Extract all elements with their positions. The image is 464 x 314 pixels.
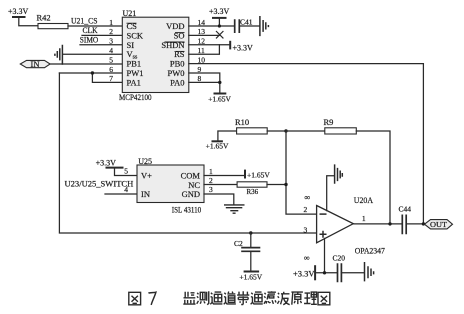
wire U21 pin 13 (SO) no-connect [189, 34, 220, 36]
wire U21 pin 11 (RS) jog up to pin 12 net [189, 45, 220, 54]
wire IN to U21 pin 5 [50, 63, 122, 65]
power +1.65V (C2) [239, 272, 262, 282]
resistor R9 [324, 117, 357, 134]
wire: long net from PW1/PA1 down left side to op-amp + input [59, 73, 316, 233]
junction (C2 / op-amp + net) [249, 231, 252, 234]
svg-text:2: 2 [209, 176, 213, 185]
capacitor C44 [399, 205, 412, 235]
power +3.3V (pin 12, rotated right) [230, 41, 253, 53]
svg-text:3: 3 [304, 225, 308, 234]
connector OUT [425, 220, 453, 229]
svg-text:+3.3V: +3.3V [8, 7, 29, 16]
svg-text:1: 1 [209, 167, 213, 176]
power +3.3V (op-amp supply rail) [293, 265, 337, 280]
capacitor C2 [234, 233, 260, 271]
wire U25 pin 2 (NC) to R36 [204, 184, 237, 186]
power +1.65V (COM, rotated right) [245, 170, 270, 180]
junction (output / R9 feedback) [388, 222, 391, 225]
svg-text:V+: V+ [141, 171, 152, 181]
wire R36 to node A vertical [267, 184, 286, 186]
junction (V- stem / rail) [323, 271, 326, 274]
svg-text:OUT: OUT [430, 220, 447, 229]
resistor R36 [237, 182, 267, 196]
wire op-amp V+ stem to ground (top) [327, 176, 335, 211]
wire R9 right down to output node [356, 131, 390, 224]
power +3.3V (U25 V+) [96, 159, 137, 176]
svg-text:2: 2 [304, 205, 308, 214]
svg-text:4: 4 [124, 185, 128, 194]
resistor R10 [235, 117, 267, 134]
no-connect X (pin 13) [216, 31, 223, 38]
svg-text:U25: U25 [138, 157, 152, 166]
svg-text:R9: R9 [324, 117, 334, 127]
svg-text:U23/U25_SWITCH: U23/U25_SWITCH [65, 180, 134, 189]
svg-text:5: 5 [109, 55, 113, 64]
svg-text:∞: ∞ [304, 253, 310, 262]
wire C44 to OUT [406, 223, 424, 225]
junction (pins 8/9) [218, 81, 221, 84]
svg-text:7: 7 [109, 74, 113, 83]
svg-text:R42: R42 [37, 13, 51, 23]
wire op-amp output pin 1 to C44 [353, 223, 402, 225]
svg-text:C44: C44 [399, 205, 412, 214]
power +1.65V (R10 left) [206, 131, 237, 150]
wire node A vertical down to op-amp pin 2 [286, 131, 317, 214]
svg-text:SIMO: SIMO [80, 35, 98, 45]
IC U21 (MCP42100) [109, 9, 205, 102]
ground (C20, rotated right) [365, 262, 374, 281]
wire op-amp V- stem down to rail [324, 238, 326, 272]
svg-text:ISL 43110: ISL 43110 [172, 205, 201, 214]
wire CLK to U21 pin 2 [82, 34, 122, 36]
power +3.3V (pin 14) [209, 7, 230, 28]
svg-text:U20A: U20A [354, 195, 374, 205]
resistor R42 [37, 13, 69, 29]
wire SIMO to U21 pin 3 [80, 44, 122, 46]
ground (U25) [224, 205, 245, 213]
power +3.3V (top left, feeds R42) [8, 7, 38, 26]
svg-text:PA0: PA0 [170, 77, 184, 87]
wire C41 to ground [239, 25, 259, 27]
svg-text:+1.65V: +1.65V [206, 141, 229, 150]
svg-text:+3.3V: +3.3V [233, 43, 254, 52]
connector IN [20, 59, 50, 69]
ground (U21 pin 4, rotated left) [55, 45, 122, 65]
svg-text:C2: C2 [234, 239, 243, 248]
svg-text:+1.65V: +1.65V [239, 273, 262, 282]
svg-text:IN: IN [141, 189, 150, 199]
wire U21 pin 14 (VDD) to C41 [189, 25, 234, 27]
junction node A (R10/R9/R36 vertical) [284, 129, 287, 132]
caption: figure title 图7 监测通道带通滤波原理图 (hand-drawn glyphs) [129, 292, 141, 305]
wire U21 pin 8 (PA0) [189, 82, 220, 93]
wire U21 pin 9 (PW0) down [189, 73, 220, 82]
svg-text:2: 2 [109, 27, 113, 36]
wire node A to R9 [286, 130, 325, 132]
svg-text:C20: C20 [333, 254, 346, 263]
svg-text:5: 5 [124, 167, 128, 176]
wire U21_CS: R42 to U21 pin 1 [68, 25, 122, 27]
svg-text:4: 4 [109, 46, 113, 55]
wire C20 to ground [341, 272, 364, 274]
op-amp U20A [304, 193, 385, 262]
svg-text:U21: U21 [123, 9, 137, 18]
wire U25 pin 3 (GND) to ground [204, 194, 234, 205]
svg-text:+3.3V: +3.3V [209, 7, 230, 16]
ground (op-amp top, rotated right) [335, 164, 343, 183]
svg-text:GND: GND [182, 189, 200, 199]
junction (R36 / node A vertical) [284, 183, 287, 186]
svg-text:3: 3 [209, 185, 213, 194]
svg-text:+1.65V: +1.65V [208, 95, 231, 104]
junction (pins 6/7) [91, 71, 94, 74]
svg-text:6: 6 [109, 65, 113, 74]
svg-text:IN: IN [31, 59, 40, 69]
svg-text:3: 3 [109, 37, 113, 46]
wire U23/U25_SWITCH to U25 pin 4 [105, 193, 137, 195]
ground (C41, rotated right) [260, 16, 269, 36]
wire U21 pin 12 (SHDN) to +3.3V [189, 44, 230, 46]
svg-text:+3.3V: +3.3V [293, 268, 315, 278]
power +1.65V (pins 8/9) [208, 94, 231, 104]
svg-text:CLK: CLK [83, 25, 99, 35]
IC U25 (ISL 43110) [124, 157, 213, 214]
svg-text:MCP42100: MCP42100 [119, 93, 152, 102]
capacitor C41 [235, 17, 253, 33]
wire U21 pin 10 (PB0) feedback to OUT node [189, 64, 424, 224]
capacitor C20 [333, 254, 346, 283]
svg-text:OPA2347: OPA2347 [355, 246, 385, 255]
svg-text:∞: ∞ [305, 193, 311, 202]
svg-text:R10: R10 [235, 117, 249, 127]
svg-text:+3.3V: +3.3V [96, 159, 117, 168]
svg-text:1: 1 [109, 18, 113, 27]
svg-text:PA1: PA1 [127, 77, 141, 87]
svg-text:U21_CS: U21_CS [71, 16, 98, 26]
svg-text:C41: C41 [240, 17, 253, 26]
svg-text:+1.65V: +1.65V [247, 171, 270, 180]
junction (feedback / OUT) [422, 222, 425, 225]
svg-text:1: 1 [362, 214, 366, 223]
wire U21 pin 7 (PA1) jog up to pin 6 net [92, 73, 122, 82]
svg-text:R36: R36 [247, 188, 259, 196]
wire R10 to node A [267, 130, 286, 132]
wire U21 pin 6 (PW1) to left vertical [59, 72, 122, 74]
wire U25 pin 1 (COM) to +1.65V [204, 175, 245, 177]
